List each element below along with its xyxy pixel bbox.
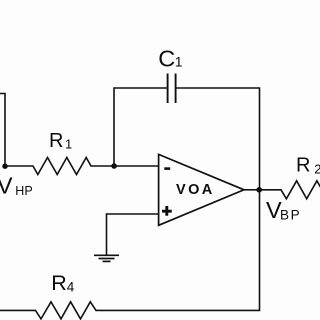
svg-text:R: R — [49, 130, 63, 152]
svg-text:HP: HP — [15, 184, 32, 198]
svg-text:BP: BP — [280, 208, 301, 223]
svg-text:V: V — [0, 173, 13, 199]
svg-text:R: R — [51, 271, 67, 295]
svg-text:C: C — [158, 45, 175, 71]
svg-text:1: 1 — [65, 137, 72, 152]
svg-text:1: 1 — [175, 54, 183, 70]
svg-text:2: 2 — [314, 162, 320, 177]
svg-text:4: 4 — [67, 279, 75, 294]
svg-text:R: R — [296, 155, 310, 177]
svg-text:VOA: VOA — [176, 182, 215, 198]
